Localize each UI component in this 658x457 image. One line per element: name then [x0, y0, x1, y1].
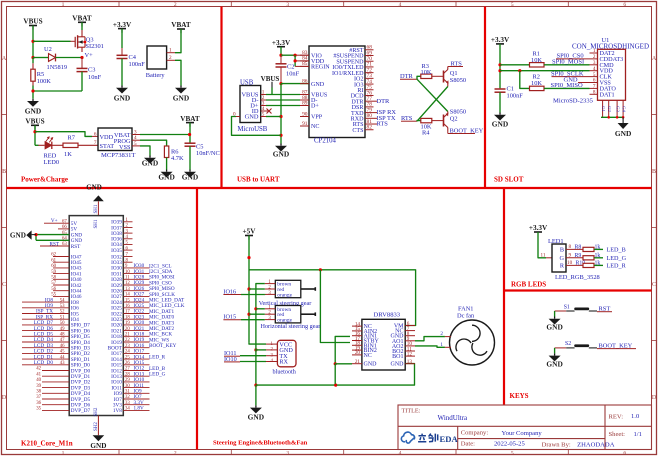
wire LED to R7 — [52, 144, 63, 146]
ground — [142, 156, 158, 168]
svg-text:D+: D+ — [311, 104, 319, 110]
net label RTS (bottom) — [401, 115, 417, 122]
junction servo2 brown — [254, 307, 257, 310]
wire GND pin86 — [281, 83, 309, 85]
power flag +3.3V (CP2104) — [272, 39, 291, 47]
ground — [173, 86, 189, 103]
svg-text:47: 47 — [60, 338, 65, 343]
svg-text:58: 58 — [51, 276, 56, 281]
svg-text:5: 5 — [511, 451, 514, 457]
svg-text:C: C — [2, 282, 6, 288]
svg-text:52: 52 — [60, 310, 65, 315]
svg-text:RTS: RTS — [377, 121, 389, 128]
junction VDD tap — [498, 69, 501, 72]
svg-text:GND: GND — [245, 114, 259, 121]
svg-text:10: 10 — [567, 260, 573, 266]
svg-text:G2: G2 — [607, 106, 612, 112]
wire SH1 — [94, 201, 99, 215]
net label RST (S1) — [597, 306, 612, 313]
transistor Q1 S8050 — [444, 67, 467, 87]
svg-text:+5V: +5V — [243, 228, 257, 236]
junction usb shield — [279, 134, 282, 137]
svg-text:10nF: 10nF — [88, 74, 102, 81]
svg-text:A: A — [2, 56, 7, 62]
svg-text:Drawn By:: Drawn By: — [542, 441, 571, 448]
svg-text:G3: G3 — [615, 106, 620, 112]
svg-text:46: 46 — [60, 344, 65, 349]
svg-text:R9: R9 — [575, 253, 582, 259]
svg-text:SH1: SH1 — [94, 219, 99, 228]
svg-text:G4: G4 — [621, 106, 626, 112]
LED LED0 RED — [35, 136, 59, 166]
svg-text:60: 60 — [51, 264, 56, 269]
wire usb D+ to pin89 — [266, 105, 300, 107]
connector U5 left pins 67-63 — [40, 219, 82, 249]
svg-text:GND: GND — [10, 232, 26, 240]
svg-text:GND: GND — [142, 159, 158, 168]
resistor R6 4.7K — [164, 146, 184, 170]
svg-text:VDD: VDD — [100, 134, 114, 141]
svg-text:10K: 10K — [531, 57, 542, 64]
svg-text:TITLE:: TITLE: — [402, 408, 421, 415]
connector J1 vertical steering gear — [265, 280, 316, 298]
svg-text:12: 12 — [125, 281, 130, 286]
svg-text:SPI0_CS0: SPI0_CS0 — [557, 53, 584, 60]
resistor R4 10K — [421, 118, 432, 136]
ground — [114, 86, 130, 103]
svg-text:S8050: S8050 — [450, 77, 466, 84]
svg-text:MicroSD-2335: MicroSD-2335 — [553, 98, 594, 105]
svg-text:REV:: REV: — [609, 414, 624, 421]
wire R3 to Q1 base — [432, 75, 444, 77]
svg-text:C: C — [652, 282, 656, 288]
wire usb VBUS to pin87 — [266, 94, 300, 96]
capacitor C5 10nF/NC — [185, 143, 220, 169]
capacitor C4 100nF — [117, 29, 146, 86]
wire usb shield pin0 — [232, 117, 282, 136]
diode U2 1N5819 — [33, 46, 67, 71]
svg-text:10nF/NC: 10nF/NC — [196, 150, 220, 157]
battery BT1 — [146, 46, 175, 79]
resistor R5 100K — [31, 58, 51, 92]
svg-text:86: 86 — [302, 78, 308, 84]
svg-text:62: 62 — [51, 253, 56, 258]
power flag +3.3V (LED) — [529, 224, 548, 232]
svg-text:82: 82 — [367, 125, 373, 131]
wire RTS to R4 — [417, 120, 421, 123]
svg-text:GND: GND — [615, 129, 631, 138]
wire to VIO pin83 — [281, 54, 295, 56]
svg-text:54: 54 — [60, 298, 65, 303]
svg-text:1/1: 1/1 — [634, 431, 642, 438]
junction VBUS lower — [33, 130, 36, 133]
junction GND rail / pin86 — [279, 82, 282, 85]
svg-text:11: 11 — [541, 253, 546, 259]
svg-text:42: 42 — [36, 367, 41, 372]
svg-text:R8: R8 — [575, 245, 582, 251]
wire servo2 brown — [256, 308, 265, 310]
svg-text:GND: GND — [86, 183, 102, 191]
connector U1 CON_MICROSDHINGED — [553, 37, 649, 105]
wire IO16 to servo1 orange — [241, 293, 265, 295]
wire R2 to DAT0 pin7 — [544, 87, 590, 89]
svg-text:32: 32 — [125, 395, 130, 400]
svg-text:KEYS: KEYS — [510, 392, 529, 400]
svg-text:U2: U2 — [44, 46, 52, 53]
junction STBY tap — [319, 268, 322, 271]
wire R2 branch — [520, 71, 530, 89]
power flag VBAT (Q3 source) — [72, 15, 92, 27]
svg-text:1N5819: 1N5819 — [47, 64, 68, 71]
wire servo2 red — [249, 313, 265, 315]
svg-text:16: 16 — [125, 304, 130, 309]
net label SPI0_SCLK (pin5) — [551, 71, 598, 78]
svg-text:CP2104: CP2104 — [314, 137, 337, 144]
svg-text:4: 4 — [399, 451, 402, 457]
svg-text:SH1: SH1 — [94, 204, 99, 213]
wire cross RTS to Q1 emitter — [417, 87, 448, 122]
junction AIN1/GND tie — [334, 362, 337, 365]
svg-text:39: 39 — [36, 384, 41, 389]
svg-text:GND: GND — [546, 359, 562, 368]
svg-text:FAN1: FAN1 — [458, 305, 474, 312]
svg-text:100K: 100K — [37, 78, 52, 85]
svg-text:31: 31 — [125, 390, 130, 395]
connector USB Micro USB — [233, 79, 268, 133]
LED LED1 LED_RGB_3528 — [548, 238, 600, 281]
wire VBAT pin3 — [140, 134, 190, 136]
svg-text:VBUS: VBUS — [261, 75, 280, 83]
svg-text:29: 29 — [125, 378, 130, 383]
ground — [25, 99, 41, 116]
svg-text:S8050: S8050 — [450, 109, 466, 116]
wire +3.3V to LED1 pin11 — [538, 232, 546, 258]
svg-text:Date:: Date: — [461, 441, 475, 448]
resistor R10 1k — [566, 260, 603, 267]
svg-text:53: 53 — [60, 304, 65, 309]
svg-text:2: 2 — [174, 2, 177, 8]
svg-text:22: 22 — [125, 338, 130, 343]
svg-text:LED_RGB_3528: LED_RGB_3528 — [555, 274, 600, 281]
connector J3 bluetooth — [266, 340, 297, 375]
net label DTR — [400, 73, 417, 80]
svg-text:SH2: SH2 — [94, 422, 99, 431]
wire bottom GND rail — [256, 384, 336, 386]
no-connect usb ID pin — [266, 109, 272, 114]
wire DTR to R3 — [417, 76, 421, 79]
svg-text:R7: R7 — [68, 134, 76, 141]
net label GND (pin6 VSS) — [564, 77, 598, 84]
svg-text:10: 10 — [125, 270, 130, 275]
wire +3.3V rail (SD) — [499, 44, 501, 88]
wire VBUS to VDD pin6 — [35, 132, 92, 137]
svg-text:6: 6 — [94, 131, 97, 137]
junction VBUS/gate — [31, 40, 34, 43]
net label RTS (Q1 collector) — [448, 60, 463, 67]
svg-text:30: 30 — [125, 384, 130, 389]
wire R1 to CMD pin3 — [544, 64, 590, 66]
wire AIN1 tie — [335, 336, 350, 363]
svg-text:Sheet:: Sheet: — [609, 431, 626, 438]
svg-text:RX: RX — [279, 359, 288, 366]
net label SPI0_CS0 (pin2) — [556, 53, 598, 60]
svg-text:28: 28 — [125, 372, 130, 377]
svg-text:34: 34 — [125, 407, 130, 412]
svg-text:DTR: DTR — [377, 98, 391, 105]
ground — [10, 230, 36, 239]
svg-text:DAT1: DAT1 — [600, 91, 615, 98]
wire +3.3V rail — [280, 47, 282, 56]
svg-text:GND: GND — [273, 150, 289, 159]
junction +3.3V — [279, 54, 282, 57]
wire servo1 brown chain — [256, 284, 265, 349]
svg-text:33: 33 — [125, 401, 130, 406]
capacitor C1 100nF — [495, 86, 524, 113]
svg-text:21: 21 — [355, 359, 361, 365]
junction shield — [607, 116, 610, 119]
svg-text:20: 20 — [125, 327, 130, 332]
ground — [273, 144, 289, 159]
svg-text:24: 24 — [125, 350, 130, 355]
ground — [158, 170, 174, 182]
net label IO15 — [223, 314, 241, 321]
wire usb GND to rail — [266, 116, 281, 118]
svg-text:MicroUSB: MicroUSB — [238, 126, 268, 133]
svg-text:VBAT: VBAT — [171, 21, 191, 29]
svg-text:GND: GND — [158, 173, 174, 182]
ground — [248, 405, 264, 421]
svg-text:19: 19 — [125, 321, 130, 326]
wire SH2 — [97, 416, 99, 436]
svg-text:23: 23 — [125, 344, 130, 349]
svg-text:LED_R: LED_R — [149, 355, 166, 361]
wire AO1 to fan pin2 — [415, 337, 445, 341]
svg-text:bluetooth: bluetooth — [273, 369, 297, 376]
svg-text:4.7K: 4.7K — [171, 155, 184, 162]
svg-text:D: D — [2, 395, 7, 401]
svg-text:B: B — [652, 169, 656, 175]
svg-text:1: 1 — [62, 451, 65, 457]
wire VBUS to LED/VDD — [34, 125, 36, 145]
junction bottom rail — [31, 89, 34, 92]
svg-text:GND: GND — [311, 82, 325, 88]
svg-text:REGIN: REGIN — [311, 65, 330, 71]
svg-text:57: 57 — [51, 281, 56, 286]
svg-text:GND: GND — [391, 362, 405, 368]
svg-text:13: 13 — [125, 287, 130, 292]
svg-text:12: 12 — [407, 351, 413, 357]
wire bluetooth GND — [256, 349, 266, 351]
power flag VBAT (charger out) — [180, 115, 200, 127]
wire tie to GND21 — [335, 363, 352, 365]
junction bluetooth GND — [254, 348, 257, 351]
svg-text:2: 2 — [174, 451, 177, 457]
svg-text:1: 1 — [169, 47, 172, 53]
junction R2 tap — [518, 69, 521, 72]
svg-text:18: 18 — [125, 315, 130, 320]
wire R1 pullup — [500, 64, 530, 66]
svg-text:LED_B: LED_B — [607, 246, 626, 253]
net label BOOT_KEY (Q2 collector) — [448, 127, 484, 134]
svg-text:14: 14 — [125, 293, 130, 298]
svg-text:+3.3V: +3.3V — [529, 224, 548, 232]
svg-text:Steering Engine&Bluetooth&Fan: Steering Engine&Bluetooth&Fan — [213, 440, 308, 447]
ground — [86, 183, 104, 201]
connector U5 K210_Core_M1n box — [69, 216, 123, 417]
svg-text:10K: 10K — [531, 80, 542, 87]
resistor R1 10K — [530, 51, 545, 68]
junction pin83 branch — [294, 54, 297, 57]
svg-text:STAT: STAT — [100, 143, 115, 150]
resistor R7 1K — [63, 134, 78, 158]
connector U5 left pins 62-35 — [22, 253, 91, 415]
svg-text:GND: GND — [564, 77, 578, 84]
svg-text:Battery: Battery — [146, 72, 166, 79]
svg-text:1.0: 1.0 — [631, 413, 640, 420]
svg-text:21: 21 — [125, 333, 130, 338]
svg-text:3: 3 — [286, 2, 289, 8]
power flag VBAT (battery) — [171, 21, 191, 33]
svg-text:Horizontal steering gear: Horizontal steering gear — [261, 323, 321, 330]
wire VBAT to Q3 source — [81, 22, 83, 30]
net flag VBUS (usb) — [261, 75, 280, 88]
connector U5 right pins 7-34 — [108, 253, 185, 415]
svg-text:9: 9 — [569, 253, 572, 259]
svg-text:56: 56 — [51, 287, 56, 292]
title block (decorative) — [398, 405, 652, 450]
wire R4 to Q2 base — [432, 120, 444, 122]
svg-text:48: 48 — [60, 333, 65, 338]
svg-text:BOOT_KEY: BOOT_KEY — [149, 343, 177, 349]
svg-text:GND: GND — [492, 120, 508, 129]
wire rail to GND — [255, 385, 257, 405]
power flag VBUS (top) — [23, 18, 42, 30]
resistor R9 1k — [566, 253, 603, 260]
wire STBY from +5V — [320, 270, 350, 343]
svg-text:LCD_D0: LCD_D0 — [34, 360, 54, 366]
svg-text:R4: R4 — [422, 129, 430, 136]
logo LCEDA (decorative) — [401, 432, 458, 444]
svg-text:8: 8 — [569, 244, 572, 250]
wire PROG pin4 to R6 — [140, 140, 167, 146]
svg-text:GND: GND — [25, 107, 41, 116]
svg-text:26: 26 — [125, 361, 130, 366]
ground — [615, 117, 631, 138]
switch S2 — [555, 341, 597, 348]
svg-text:91: 91 — [302, 121, 308, 127]
svg-text:CTS: CTS — [352, 128, 364, 134]
svg-text:+3.3V: +3.3V — [113, 21, 132, 29]
wire Q3 gate — [33, 40, 71, 42]
wire IO15 to servo2 orange — [241, 319, 265, 321]
wire diode to V+ node — [56, 57, 83, 59]
svg-text:Q2: Q2 — [450, 116, 458, 123]
svg-text:GND: GND — [173, 93, 189, 102]
svg-text:7: 7 — [94, 140, 97, 146]
svg-text:USB to UART: USB to UART — [237, 176, 280, 184]
svg-text:41: 41 — [36, 372, 41, 377]
wire battery pin1 to VBAT — [175, 29, 181, 53]
svg-text:38: 38 — [36, 390, 41, 395]
svg-text:ZHAODADA: ZHAODADA — [577, 441, 615, 448]
wire +5V to bluetooth VCC — [249, 342, 266, 344]
svg-text:5: 5 — [511, 2, 514, 8]
ground — [546, 353, 562, 368]
svg-text:51: 51 — [60, 315, 65, 320]
svg-text:100nF: 100nF — [129, 61, 146, 68]
junction servo2 red — [247, 313, 250, 316]
wire shield bus — [601, 116, 623, 118]
svg-text:10K: 10K — [421, 69, 432, 76]
svg-text:25: 25 — [125, 355, 130, 360]
svg-text:2022-05-25: 2022-05-25 — [494, 441, 525, 448]
svg-text:G: G — [560, 255, 565, 262]
svg-text:+3.3V: +3.3V — [272, 39, 291, 47]
wire +5V rail down — [248, 236, 250, 343]
power flag VBUS (charger) — [25, 118, 44, 130]
connector U5 right pins 1-6 — [111, 218, 132, 254]
ground — [492, 113, 508, 129]
junction R1 tap — [498, 63, 501, 66]
wire IO11 to TX — [240, 355, 266, 357]
svg-text:11: 11 — [125, 276, 130, 281]
svg-text:GND: GND — [546, 323, 562, 332]
svg-text:Power&Charge: Power&Charge — [21, 176, 68, 184]
IC U4 CP2104 right pins — [332, 45, 396, 134]
IC U6 DRV8833 — [352, 311, 415, 370]
svg-text:66: 66 — [62, 225, 67, 230]
junction bottom rail mid — [334, 384, 337, 387]
svg-text:G1: G1 — [601, 106, 606, 112]
svg-text:100nF: 100nF — [507, 93, 524, 100]
svg-text:6: 6 — [623, 451, 626, 457]
svg-text:LED0: LED0 — [44, 159, 60, 166]
svg-text:VSS: VSS — [119, 144, 131, 151]
IC U4 CP2104 — [300, 46, 365, 144]
svg-text:40: 40 — [36, 378, 41, 383]
svg-text:C3: C3 — [88, 66, 95, 73]
wire VSS pin5 to GND — [140, 146, 150, 156]
svg-text:C1: C1 — [507, 86, 514, 93]
svg-text:IO35: IO35 — [111, 248, 122, 254]
svg-text:VPP: VPP — [311, 115, 323, 121]
svg-text:45: 45 — [60, 350, 65, 355]
net label IO16 — [223, 288, 241, 295]
svg-text:D: D — [652, 395, 657, 401]
svg-text:DVP_D7: DVP_D7 — [71, 408, 91, 414]
svg-text:EDA: EDA — [440, 434, 459, 444]
svg-text:GND: GND — [364, 362, 378, 368]
svg-text:VBUS: VBUS — [23, 18, 42, 26]
wire GND chain to bottom rail — [255, 348, 257, 385]
svg-text:61: 61 — [51, 258, 56, 263]
wire S2 to GND — [554, 348, 556, 354]
svg-text:SH2: SH2 — [94, 407, 99, 416]
wire S1 to GND — [554, 311, 556, 317]
wire +5V top rail — [249, 270, 416, 326]
svg-text:1: 1 — [440, 342, 443, 348]
svg-text:S2: S2 — [565, 341, 571, 347]
wire VBUS rail — [32, 26, 34, 58]
svg-text:15: 15 — [125, 298, 130, 303]
svg-text:43: 43 — [60, 361, 65, 366]
svg-text:GND: GND — [248, 413, 264, 422]
svg-text:LED_G: LED_G — [607, 255, 627, 262]
svg-text:1V8: 1V8 — [113, 408, 122, 414]
svg-text:2: 2 — [440, 331, 443, 337]
connector J2 horizontal steering gear — [265, 305, 316, 323]
switch S1 — [555, 304, 597, 311]
